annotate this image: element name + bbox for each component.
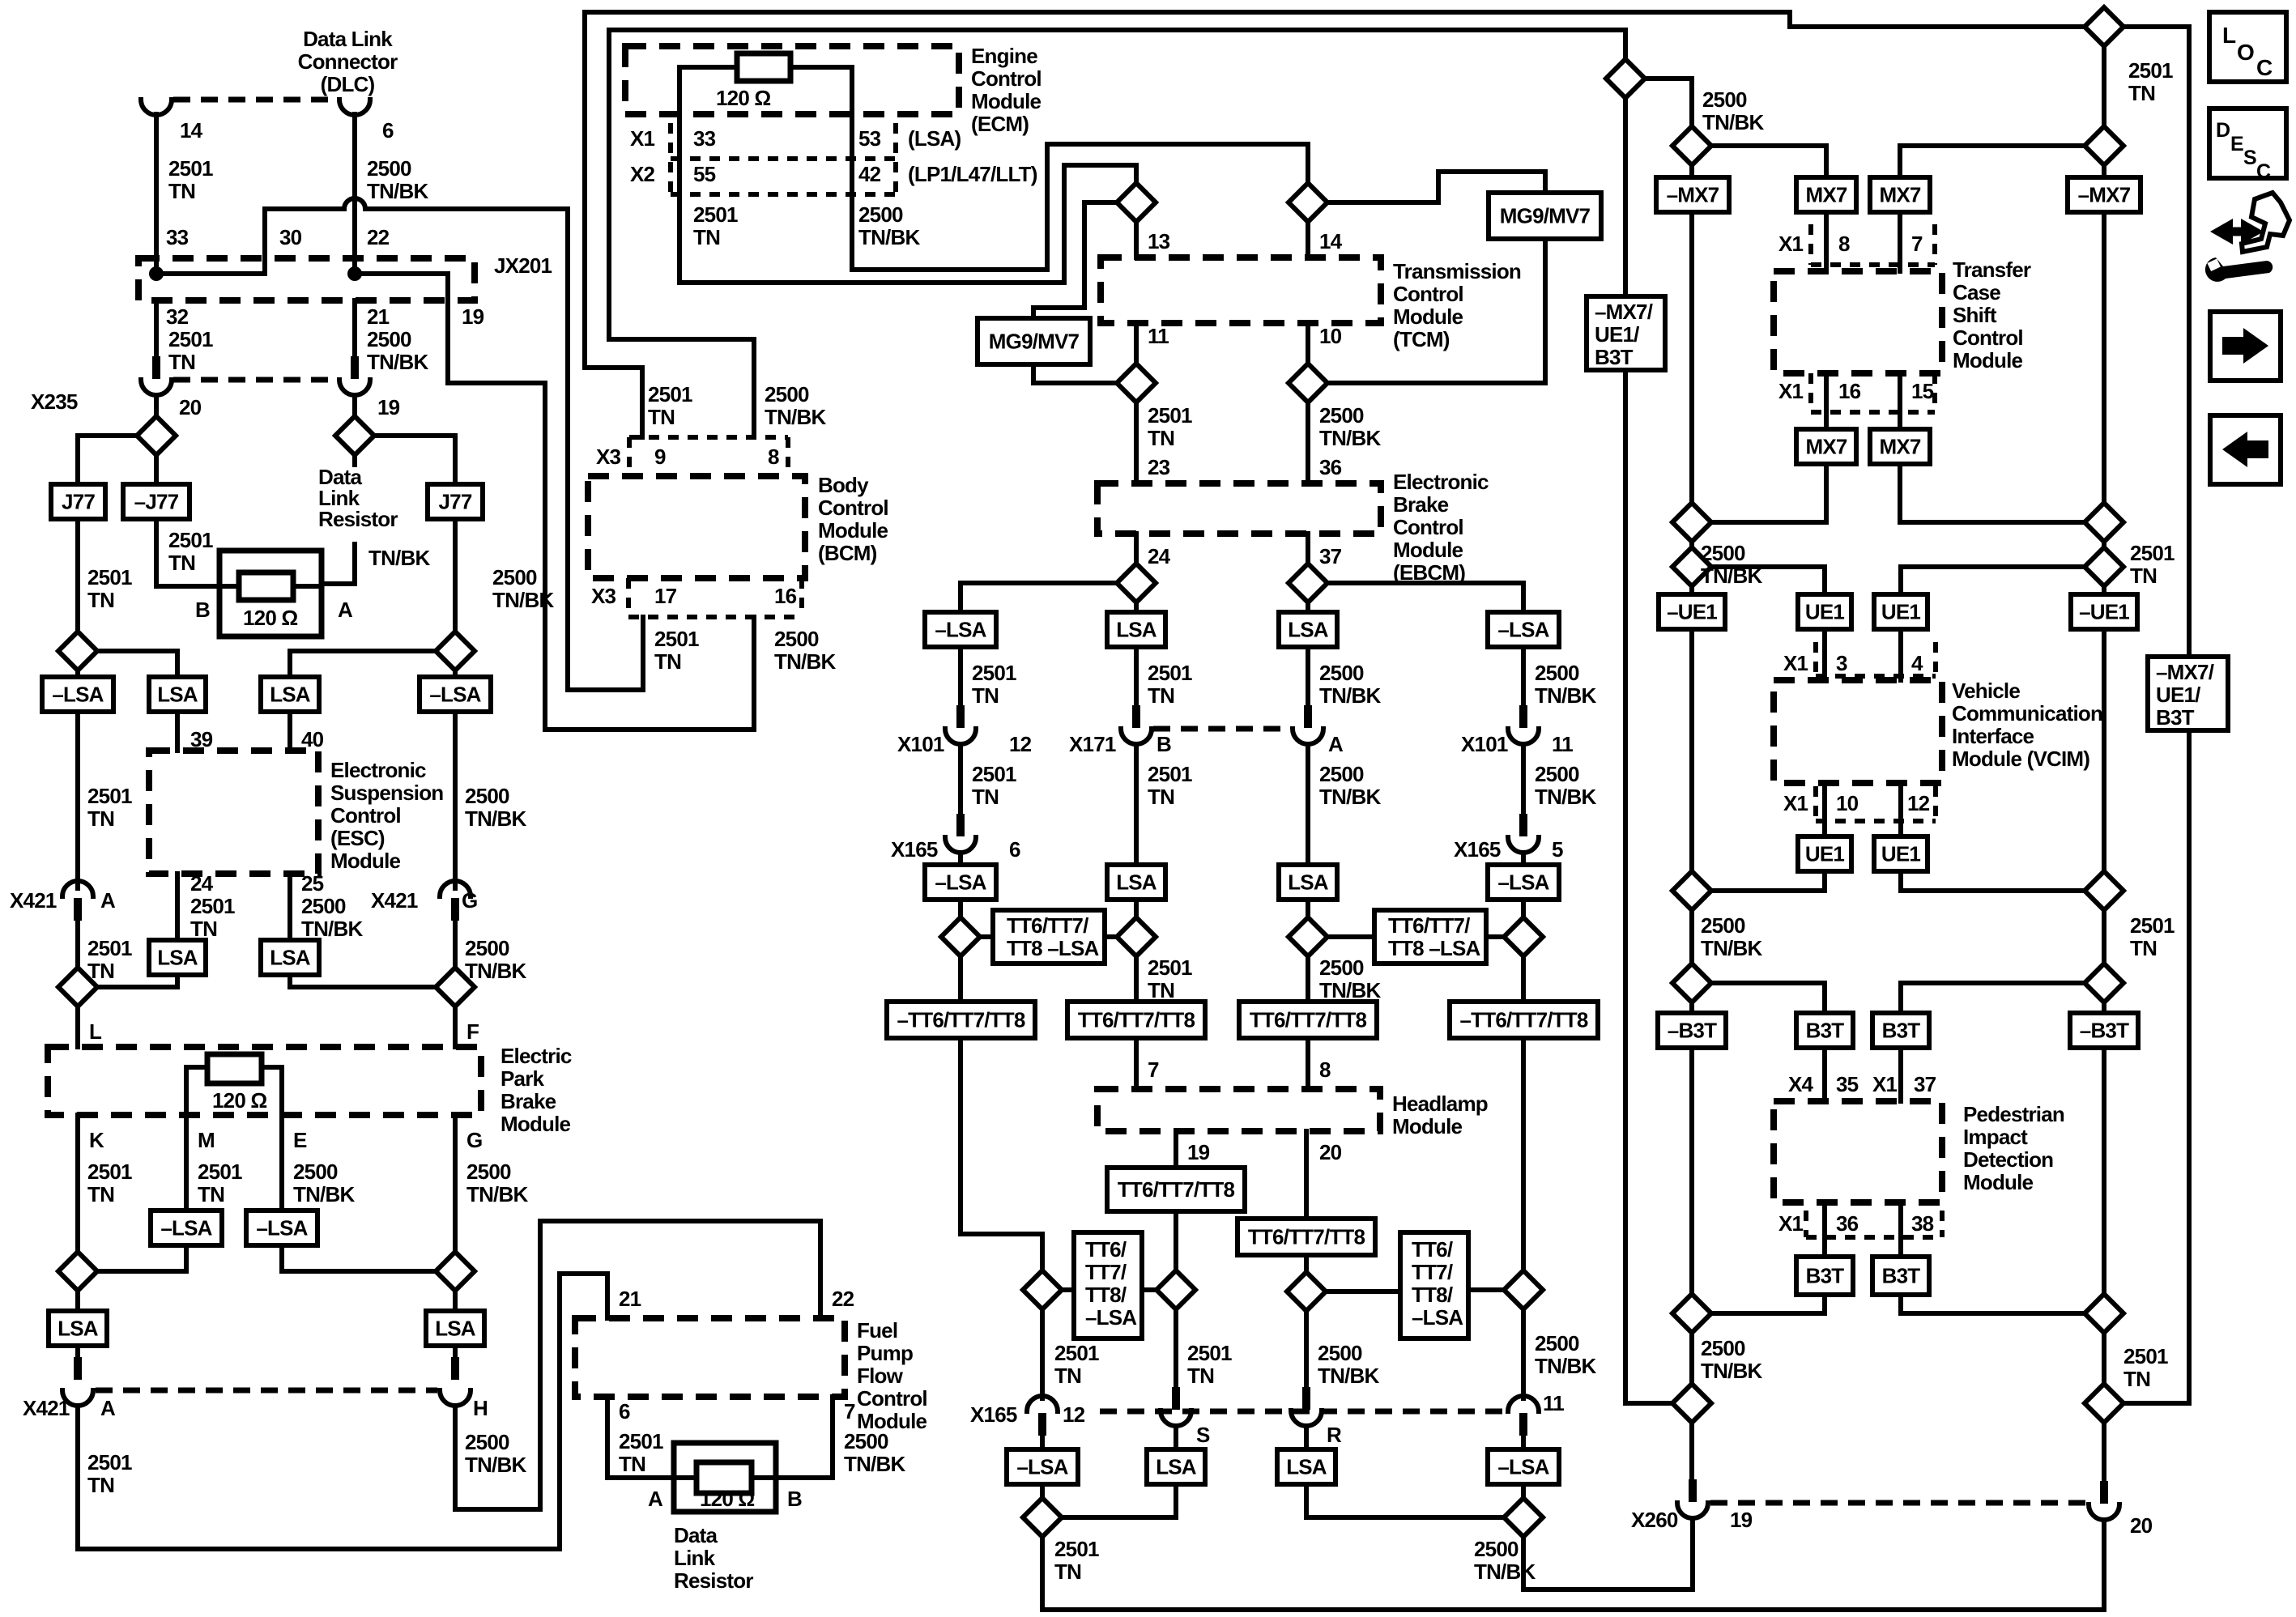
dashed harness line X260 [1710,1500,2086,1506]
svg-text:X165: X165 [970,1402,1017,1427]
svg-text:22: 22 [367,225,390,249]
svg-text:–LSA: –LSA [160,1216,212,1240]
wire B3T to pedestrian pin 37 [1898,1048,1903,1101]
wire diamond 37 to branch4 [1327,583,1523,612]
svg-text:B: B [787,1487,802,1511]
wire J77 left down to diamond [75,519,80,632]
wire MX7 to transfer case pin 8 [1824,212,1829,271]
option box -MX7 (left) [1656,177,1729,212]
svg-text:TT6/TT7/TT8: TT6/TT7/TT8 [1250,1008,1367,1032]
wire rail diamond 1622 to 1733 left [1689,1333,1694,1384]
wire 2500 TN/BK second top rail [609,30,1625,59]
wire TCM pin 14 stub [1306,222,1310,257]
wire diamond to X260-19 tick [1689,1423,1694,1482]
wire rail between UE1/B3T diamonds left [1689,910,1694,964]
splice diamond B3T top left [1672,964,1711,1002]
svg-text:S: S [2243,147,2256,169]
wire UE1 bottom right to diamond [1901,871,2085,891]
wire LSA b2 to diamond [1062,1484,1176,1517]
svg-text:13: 13 [1148,229,1170,253]
svg-text:11: 11 [1552,732,1573,756]
svg-text:–LSA: –LSA [1497,618,1549,642]
option box -B3T (left) [1658,1013,1726,1048]
svg-text:30: 30 [279,225,302,249]
splice diamond -MX7 branch [1672,126,1711,165]
wire VCIM pin 10 to UE1 [1822,783,1827,836]
svg-text:X3: X3 [591,584,616,608]
svg-text:120 Ω: 120 Ω [212,1088,266,1113]
wire diamond to J77 right [374,436,455,484]
wire diamond to EPB pin L [75,1006,80,1047]
splice diamond K (lower left) [58,1252,97,1291]
splice diamond 2501 (above ESC) [58,632,97,670]
splice diamond branch4 lower [1504,1270,1543,1309]
dashed harness line X165 bottom [1100,1409,1508,1415]
svg-text:TT6/TT7/TT8: TT6/TT7/TT8 [1248,1225,1365,1249]
option box J77 right [428,484,483,519]
svg-text:–B3T: –B3T [1668,1019,1717,1043]
svg-text:A: A [1328,732,1344,756]
dashed harness line X421 lower [96,1388,437,1394]
wire TT6-LSA box A to diamond2 [1105,934,1117,939]
wire branch3 diamond to TT6 box [1306,956,1310,1002]
connector X101 pin 12 [945,705,976,744]
splice diamond branch3 (TT6 row) [1289,917,1327,956]
svg-text:B3T: B3T [1882,1019,1921,1043]
wire EBCM pin 24 to diamond [1134,534,1139,564]
connector X171 pin R [1291,1387,1322,1426]
wire 2500 TN/BK DLC-6 down to JX201 [352,114,357,274]
svg-text:JX201: JX201 [494,253,552,278]
connector X235 pin 20 [141,356,172,395]
rail segment between stacked diamonds left [1689,539,1694,550]
option box LSA (ESC 24) [149,940,206,975]
svg-text:TT6/TT7/TT8 –LSA: TT6/TT7/TT8 –LSA [1007,913,1100,960]
splice diamond branch2 lower [1157,1270,1195,1309]
wire J77 right down to diamond [453,519,458,632]
option box B3T (top right) [1872,1013,1929,1048]
svg-text:X1: X1 [1872,1072,1898,1096]
wire -MX7/UE1/B3T rail corner to diamond [1625,100,1672,1403]
option box B3T (bottom right) [1872,1257,1929,1295]
icon box arrow right [2210,312,2281,381]
svg-text:MX7: MX7 [1805,183,1847,207]
option box -UE1 (right) [2071,594,2137,629]
svg-text:17: 17 [654,584,677,608]
option box LSA (branch3 top) [1279,612,1337,647]
svg-text:53: 53 [858,126,881,151]
option box TT6/TT7/TT8/-LSA (tall right) [1400,1232,1468,1338]
option box LSA (ESC 39) [149,677,206,712]
connector X171 pin A [1293,705,1323,744]
svg-text:42: 42 [858,162,881,186]
resistor 120 ohm (data link resistor bottom) [696,1462,752,1493]
option box -MX7/UE1/B3T (right) [2148,657,2228,730]
wire diamond to LSA (lower right) [453,1291,458,1311]
wire S cup to LSA [1174,1427,1178,1449]
wire tall TT6 box to diamond2 [1142,1287,1157,1292]
wire ESC pin 24 to LSA [175,874,180,940]
svg-text:12: 12 [1907,791,1930,815]
svg-text:12: 12 [1009,732,1032,756]
wire diamond to J77 left [78,436,137,484]
module Body Control Module dashed box [588,476,805,578]
option box J77 left [51,484,105,519]
svg-text:X421: X421 [371,888,418,913]
svg-text:B: B [195,598,210,622]
svg-text:6: 6 [382,118,394,143]
connector X235 pin 19 [339,356,370,395]
VCIM connector bracket X1 top [1816,642,1936,676]
wire branch2 LSA to diamond [1134,900,1139,917]
svg-text:38: 38 [1911,1211,1934,1236]
connector X165 pin 11 (bottom) [1508,1396,1539,1436]
svg-text:9: 9 [654,445,666,469]
svg-text:11: 11 [1543,1391,1564,1415]
svg-text:3: 3 [1836,651,1847,675]
splice diamond TCM-13 [1117,183,1156,222]
wire MX7 bottom right to diamond [1900,464,2085,522]
svg-text:L: L [89,1019,102,1044]
wire branch4 -LSA to diamond [1521,900,1526,917]
svg-text:–LSA: –LSA [935,870,986,895]
wire -UE1 left stub [1689,586,1694,594]
svg-text:X165: X165 [1454,837,1501,862]
option box MX7 (top left) [1796,177,1856,212]
wire 2500 TN/BK JX201-21 down to X235-19 [352,300,357,356]
svg-text:UE1: UE1 [1881,600,1921,624]
svg-text:11: 11 [1148,324,1169,348]
svg-text:X1: X1 [1778,1211,1804,1236]
wire 2501 TN DLC-14 down to JX201 [154,114,159,274]
svg-text:X165: X165 [891,837,938,862]
wire B3T to pedestrian pin 35 [1822,1048,1827,1101]
wire EBCM pin 37 to diamond [1306,534,1310,564]
splice diamond X235-20 [137,416,176,455]
splice diamond EBCM-37 [1289,564,1327,602]
svg-text:LSA: LSA [157,683,198,707]
splice diamond B3T bottom right [2085,1294,2123,1333]
option box -MX7 (right) [2068,177,2141,212]
svg-text:E: E [293,1128,307,1152]
svg-text:–MX7: –MX7 [2078,183,2131,207]
option box -LSA (branch1 top) [925,612,996,647]
wire LSA ESC24 to diamond L [97,975,177,987]
svg-text:H: H [473,1396,488,1420]
svg-text:32: 32 [166,304,189,329]
svg-text:21: 21 [619,1287,641,1311]
svg-text:–LSA: –LSA [256,1216,308,1240]
wire 2501 TN bottom run to X260-20 [1042,1521,2104,1610]
option box LSA (b3 bottom) [1277,1449,1335,1484]
wire rail diamond 1622 to 1736 right [2102,1333,2106,1384]
wire MX7 to transfer case pin 7 [1898,212,1902,271]
svg-text:LSA: LSA [270,946,311,970]
resistor left lead [219,584,239,589]
wire branch4 diamond to -TT6 box [1521,956,1526,1002]
option box TT6/TT7/TT8 (pin20) [1237,1219,1375,1255]
svg-text:7: 7 [1911,232,1923,256]
svg-text:19: 19 [1187,1140,1210,1164]
svg-text:24: 24 [190,871,214,896]
icon arrows and wrench [2205,193,2290,282]
wire 2501 TN ECM to TCM-13 [679,165,1136,283]
option box -TT6/TT7/TT8 (branch4) [1450,1002,1598,1038]
svg-text:X421: X421 [23,1396,70,1420]
splice diamond 2501 (bottom) [1023,1498,1062,1537]
wire TCM pin 13 stub [1134,222,1139,257]
connector DLC pin 6 cup [339,100,370,115]
svg-text:–LSA: –LSA [1016,1455,1068,1479]
wire X165-12 to -LSA [1040,1436,1045,1449]
wire pin20 TT6 box to diamond [1304,1255,1309,1272]
male tick X421-H lower [451,1357,459,1380]
wire EPB pin K down [75,1115,80,1252]
wire -UE1 right stub [2102,586,2106,594]
wire -B3T rail right down to diamond [2102,1048,2106,1294]
splice diamond UE1 top right [2085,547,2123,586]
svg-text:10: 10 [1836,791,1859,815]
BCM connector dashed bracket X3 (bottom) [628,578,802,617]
wire 2501 TN JX201-32 down to X235-20 [154,300,159,356]
junction dot JX201 2500 bus [347,266,362,281]
svg-text:–LSA: –LSA [429,683,481,707]
wire branch2 LSA to X171-B [1134,647,1139,720]
wire branch1 -LSA to diamond [958,900,963,917]
svg-text:F: F [466,1019,479,1044]
wire LSA b3 to diamond [1306,1484,1504,1517]
connector X101 pin 11 [1508,705,1539,744]
splice diamond UE1 top left [1672,547,1711,586]
wire pedestrian pin 36 to B3T [1822,1202,1827,1257]
splice diamond UE1 bottom right [2085,871,2123,910]
svg-text:UE1: UE1 [1805,600,1845,624]
svg-text:LSA: LSA [1116,618,1157,642]
wire branch1 LSA to X101-12 [958,647,963,720]
module Vehicle Communication Interface Module dashed box [1774,680,1942,783]
splice diamond G (lower right) [436,1252,475,1291]
connector X165 pin 6 [945,814,976,853]
svg-text:35: 35 [1836,1072,1859,1096]
option box UE1 (bottom right) [1874,836,1928,871]
svg-text:–J77: –J77 [134,490,179,514]
connector X171 pin B [1121,705,1152,744]
module Electronic Suspension Control (ESC) dashed box [149,751,318,874]
svg-text:C: C [2256,55,2273,80]
svg-text:–LSA: –LSA [52,683,104,707]
svg-text:120 Ω: 120 Ω [243,606,297,630]
dashed harness line DLC [173,97,338,103]
svg-text:–UE1: –UE1 [1667,600,1717,624]
icon box arrow left [2210,415,2281,484]
svg-text:–LSA: –LSA [935,618,986,642]
svg-text:J77: J77 [62,490,95,514]
svg-text:MG9/MV7: MG9/MV7 [989,330,1080,354]
svg-text:X260: X260 [1631,1508,1678,1532]
option box LSA (lower right) [426,1311,484,1346]
wire MX7 bottom left to diamond [1711,464,1826,522]
svg-text:X171: X171 [1069,732,1116,756]
wire -B3T left stub [1689,1002,1694,1013]
svg-text:L: L [2222,23,2236,48]
wire 2501 TN X421-A to fuel pump 21 [78,1274,607,1549]
svg-text:5: 5 [1552,837,1563,862]
wire resistor A up to diamond 19 (stub) [352,455,357,465]
svg-text:TT6/TT7/TT8: TT6/TT7/TT8 [1078,1008,1195,1032]
wire VCIM pin 12 to UE1 [1898,783,1903,836]
wire LSA to ESC pin 39 [175,712,180,751]
wire TT6-LSA box B to diamond4 [1486,934,1504,939]
option box -LSA (EPB E) [246,1211,317,1245]
wire diamond to EBCM pin 36 [1306,402,1310,483]
svg-text:55: 55 [693,162,716,186]
option box MX7 (top right) [1870,177,1930,212]
svg-text:X1: X1 [1778,379,1804,403]
wire TCM pin 11 to diamond [1134,323,1139,364]
option box -B3T (right) [2070,1013,2138,1048]
wire diamond1 to TT6-LSA box A [980,934,993,939]
svg-text:X4: X4 [1788,1072,1814,1096]
ECM resistor right lead + pin 53/42 wire [790,67,852,270]
splice diamond MX7 right [2085,126,2123,165]
option box MX7 (bottom left) [1796,429,1856,464]
option box TT6/TT7/TT8 -LSA (left) [993,910,1105,964]
wire diamond 37 down to LSA [1306,602,1310,612]
wire branch4 to lower diamond [1521,1038,1526,1270]
svg-text:20: 20 [1319,1140,1342,1164]
wire rail between UE1/B3T diamonds right [2102,910,2106,964]
wire X235-19 to diamond [352,395,357,416]
option box UE1 (bottom left) [1798,836,1851,871]
splice diamond EBCM-24 [1117,564,1156,602]
wire X421-A to diamond L [75,919,80,968]
wire branch3 LSA to X171-A [1306,647,1310,720]
wire UE1 bottom left to diamond [1711,871,1825,891]
splice diamond X260-20 feed [2085,1384,2123,1423]
svg-text:B3T: B3T [1806,1264,1845,1288]
option box MG9/MV7 left [978,318,1090,364]
splice diamond B3T top right [2085,964,2123,1002]
wire diamond to EBCM pin 23 [1134,402,1139,483]
svg-text:–TT6/TT7/TT8: –TT6/TT7/TT8 [897,1008,1025,1032]
svg-text:X421: X421 [10,888,57,913]
wire branch2 diamond to TT6 box [1134,956,1139,1002]
option box TT6/TT7/TT8 (branch2) [1067,1002,1205,1038]
resistor lead right (bottom DLR) [752,1475,776,1480]
splice diamond MX7 bottom left [1672,503,1711,542]
wire -MX7 left stub [1689,165,1694,177]
svg-text:LSA: LSA [1288,870,1329,895]
wire -LSA b1 to diamond [1040,1484,1045,1498]
option box TT6/TT7/TT8 (pin19) [1107,1168,1245,1211]
connector X421 pin A (upper) [62,881,93,921]
wire -B3T rail left down to diamond [1689,1048,1694,1294]
male tick X421-A lower [74,1357,82,1380]
wire B3T bottom left to diamond [1711,1295,1825,1313]
svg-text:X101: X101 [1461,732,1508,756]
option box -LSA (b1 bottom) [1007,1449,1078,1484]
splice diamond MX7 bottom right [2085,503,2123,542]
svg-text:X1: X1 [630,126,655,151]
wire diamond1 lower to X165-12 [1040,1309,1045,1398]
wire UE1 left top connection [1711,567,1825,594]
wire tall TT6 box right to diamond4 [1468,1287,1504,1292]
wire branch1 X165 to -LSA [958,853,963,865]
svg-text:15: 15 [1911,379,1934,403]
splice diamond branch4 (TT6 row) [1504,917,1543,956]
svg-text:B: B [1157,732,1171,756]
module Headlamp dashed box [1097,1089,1380,1131]
svg-text:22: 22 [832,1287,854,1311]
svg-text:10: 10 [1319,324,1342,348]
svg-text:8: 8 [1838,232,1850,256]
icon box LOC [2209,12,2286,82]
module Engine Control Module dashed box [625,46,959,114]
svg-text:A: A [648,1487,663,1511]
wire branch1 X101 to X165-6 [958,744,963,828]
transfer case connector bracket X1 top [1811,224,1935,265]
wire diamond1 to tall TT6 box [1062,1287,1074,1292]
VCIM connector bracket X1 bottom [1816,786,1936,821]
resistor 120 ohm (EPB internal) [207,1054,262,1083]
rail segment between stacked diamonds right [2102,539,2106,550]
splice diamond 2500 (bottom) [1504,1498,1543,1537]
wire pedestrian pin 38 to B3T [1898,1202,1903,1257]
svg-text:19: 19 [462,304,484,329]
wire diamond4 lower to X165-11 [1521,1309,1526,1398]
dashed harness line X171 [1153,726,1291,732]
wire LSA to tick right [453,1346,458,1357]
svg-text:7: 7 [844,1399,855,1423]
option box LSA (b2 bottom) [1147,1449,1205,1484]
svg-text:LSA: LSA [157,946,198,970]
option box LSA (lower left) [49,1311,107,1346]
splice diamond TCM-10 [1289,364,1327,402]
option box UE1 (top right) [1874,594,1928,629]
svg-text:M: M [198,1128,215,1152]
svg-text:UE1: UE1 [1881,842,1921,866]
wire diamond3 to tall TT6 box right [1326,1289,1400,1294]
module Transfer Case Shift Control dashed box [1774,271,1942,373]
wire headlamp pin 20 down [1304,1131,1309,1219]
svg-text:X1: X1 [1783,651,1808,675]
wire -MX7 right rail to lower diamond [2102,212,2106,503]
icon box DESC [2209,109,2286,183]
svg-text:X2: X2 [630,162,655,186]
wire EPB pin G down [453,1115,458,1252]
wire UE1 right top connection [1901,567,2085,594]
option box -MX7/UE1/B3T (left) [1587,296,1665,370]
svg-text:LSA: LSA [435,1317,476,1341]
ECM resistor left lead + pin 33/55 wire [679,67,737,283]
connector X421 pin G (upper) [440,881,471,921]
wire JX201-30 branch riser [156,209,265,274]
svg-text:19: 19 [377,395,400,419]
wire branch A -LSA down to X421-A [75,712,80,888]
resistor lead left (bottom DLR) [674,1475,696,1480]
wire branch2 to headlamp pin 7 [1134,1038,1139,1089]
svg-text:LSA: LSA [1116,870,1157,895]
junction dot JX201 2501 bus [149,266,164,281]
connector X165 pin 5 [1508,814,1539,853]
wire diamond to MG9/MV7 left top [1033,202,1117,318]
svg-text:TT6/TT7/TT8: TT6/TT7/TT8 [1118,1177,1235,1202]
splice diamond branch1 (TT6 row) [941,917,980,956]
svg-text:S: S [1196,1423,1210,1447]
wire branch4 X101 to X165-5 [1521,744,1526,828]
svg-text:36: 36 [1836,1211,1859,1236]
wire -UE1 rail right down [2102,629,2106,871]
